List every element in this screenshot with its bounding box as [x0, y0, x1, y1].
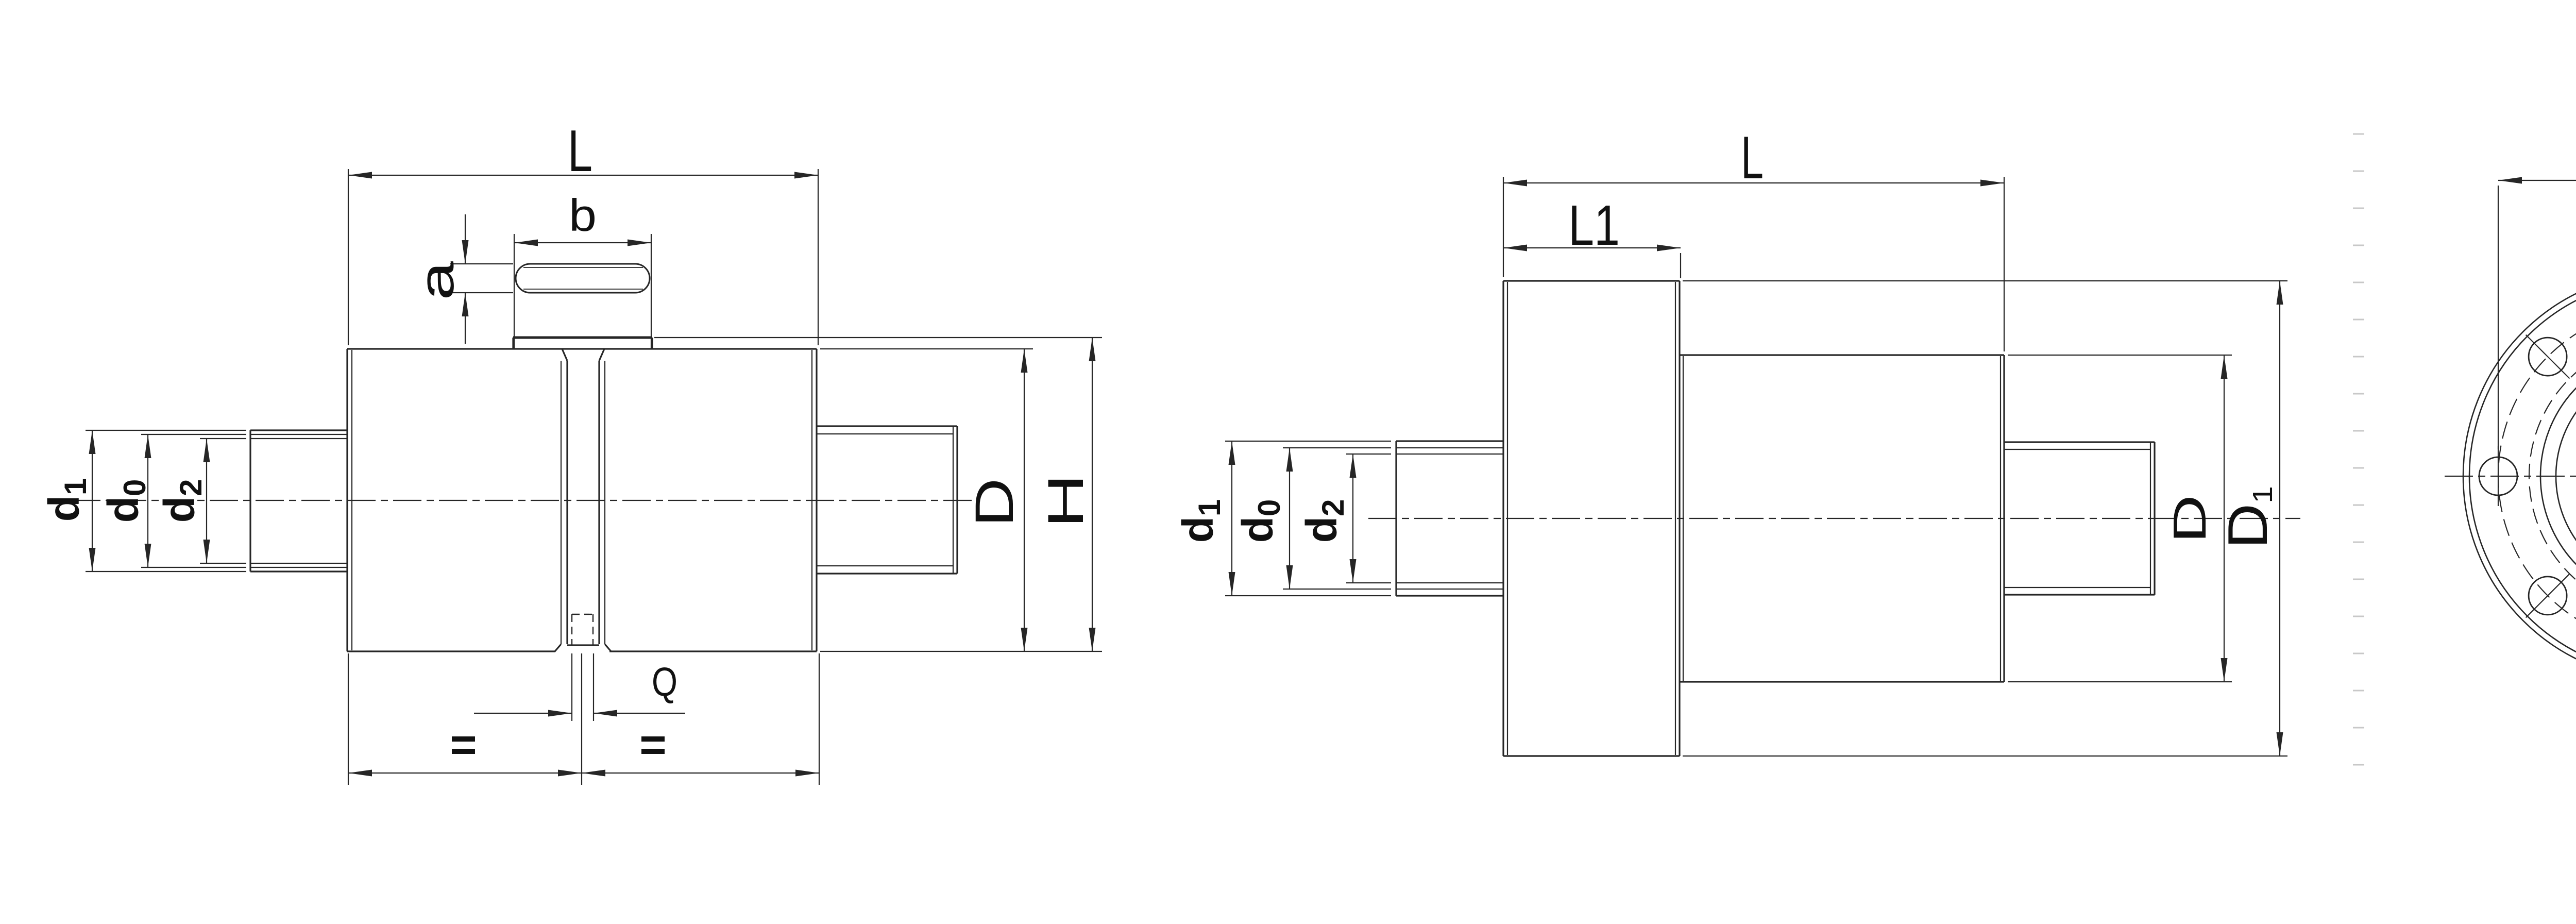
fold line (light dashes) — [2353, 134, 2364, 765]
dimension L (left view) — [348, 119, 818, 345]
key side lines — [514, 234, 651, 349]
key boss plate — [513, 338, 652, 349]
flange step circles — [2540, 349, 2576, 603]
dimension d0 (left view) — [99, 434, 246, 567]
dimension b — [514, 190, 651, 246]
bolt hole NW — [2526, 335, 2570, 379]
bolt hole W — [2479, 457, 2517, 495]
dimension d2 (middle view) — [1297, 454, 1391, 583]
svg-text:L1: L1 — [1568, 194, 1620, 257]
dimension L (middle view) — [1503, 124, 2004, 351]
PCD dashed circle — [2498, 307, 2576, 645]
right shaft stub (left view) — [817, 426, 957, 574]
center line (middle view) — [1368, 518, 2300, 519]
dimension L1 — [1503, 194, 1681, 278]
dimension d1 (left view) — [40, 430, 246, 572]
dimension D (left view) — [820, 349, 1102, 651]
dimension Q — [474, 653, 685, 721]
svg-text:D: D — [2164, 495, 2215, 543]
clamp slit — [555, 349, 611, 651]
flange (middle view) — [1503, 281, 1680, 756]
dimension a — [410, 214, 513, 344]
center line (left view) — [72, 500, 974, 501]
svg-text:Q: Q — [652, 659, 677, 704]
dimension d1 (middle view) — [1174, 441, 1391, 596]
slit center line — [581, 653, 582, 785]
svg-text:a: a — [410, 261, 464, 300]
center lines (right view) — [2445, 476, 2576, 477]
bolt hole SW — [2526, 574, 2570, 618]
dimension D1 — [1683, 281, 2287, 756]
svg-text:H: H — [1038, 474, 1094, 528]
dimension D (middle view) — [2008, 355, 2232, 682]
svg-text:D: D — [964, 478, 1024, 527]
equal-equal dimension — [348, 653, 819, 785]
outer circles — [2463, 272, 2576, 680]
right shaft stub (middle view) — [2004, 442, 2155, 595]
coupling body (left view) — [347, 349, 817, 651]
dimension PCD — [2498, 133, 2576, 449]
key slot (stadium) — [516, 264, 650, 293]
svg-text:L: L — [1741, 124, 1764, 191]
body (middle view) — [1680, 355, 2004, 682]
left shaft stub (left view) — [250, 430, 347, 572]
svg-text:L: L — [568, 119, 592, 184]
left shaft stub (middle view) — [1396, 441, 1503, 596]
clamp screw hidden hole (dashed) — [572, 614, 593, 645]
dimension d0 (middle view) — [1233, 448, 1391, 589]
dimension H — [654, 338, 1102, 651]
dimension d2 (left view) — [155, 439, 246, 563]
inner dashed circle — [2529, 338, 2576, 614]
svg-text:b: b — [569, 190, 597, 241]
